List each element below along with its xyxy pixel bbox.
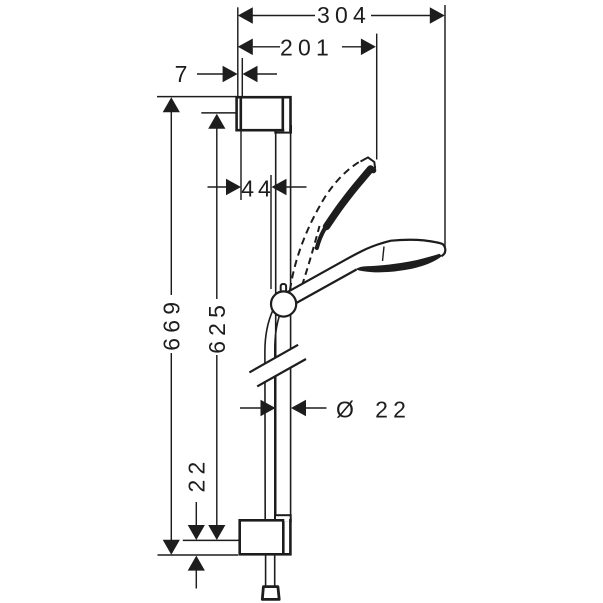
- dimension 22 upper line: [195, 502, 197, 526]
- svg-text:304: 304: [317, 2, 371, 28]
- dimension diameter 22 leader right: [306, 407, 327, 409]
- dimension 304 arrow left: [238, 7, 253, 24]
- tube break mark: [249, 345, 306, 387]
- dimension 44 arrow left pointing right: [226, 179, 241, 196]
- dimension 625 top reference line: [201, 112, 236, 114]
- dimension 669 arrow top: [163, 97, 180, 112]
- dimension 625 bottom reference line: [183, 539, 240, 541]
- dimension 201 arrow right: [361, 39, 376, 56]
- hose end cap: [262, 587, 279, 600]
- svg-text:201: 201: [280, 35, 334, 61]
- dashed hand shower upper position outline left: [290, 161, 361, 290]
- bottom wall bracket: [240, 515, 291, 554]
- svg-text:44: 44: [241, 175, 275, 201]
- dimension 44 leader left: [208, 186, 228, 188]
- top wall bracket: [237, 97, 291, 133]
- dimension 669 top reference line: [157, 96, 237, 98]
- dimension diameter 22 arrow right pointing left: [291, 400, 306, 417]
- hand shower body fill: [287, 240, 445, 307]
- hand shower bottom edge: [290, 270, 357, 307]
- hand shower spray face band: [356, 254, 443, 273]
- dimension 669 bottom reference line: [158, 554, 239, 556]
- dashed hand shower head cap outline: [361, 157, 376, 168]
- dimension 625 line: [216, 128, 218, 299]
- shower hose: [265, 310, 280, 587]
- dimension 304 arrow right: [430, 7, 445, 24]
- slider pin: [281, 284, 286, 294]
- dimension 7 arrow right pointing left: [243, 66, 258, 83]
- dashed hand shower upper position outline right: [302, 226, 320, 286]
- hand shower top edge: [287, 240, 445, 293]
- svg-text:Ø 22: Ø 22: [336, 396, 411, 422]
- dimension 22 arrow up: [188, 556, 205, 571]
- dimension 44 arrow right pointing left: [272, 179, 287, 196]
- dimension 625 arrow top: [208, 114, 225, 129]
- svg-text:669: 669: [159, 297, 185, 351]
- dimension 304 extension line right: [444, 5, 446, 252]
- dashed hand shower spray face band: [317, 169, 374, 248]
- shower rail tube: [276, 131, 291, 517]
- dimension 304 extension line left (wall face): [237, 7, 239, 96]
- svg-text:625: 625: [204, 300, 230, 354]
- svg-text:7: 7: [175, 61, 188, 87]
- dimension 669 arrow bottom: [163, 540, 180, 555]
- dimension 7 leader right: [258, 73, 278, 75]
- bracket step notch erase top: [284, 129, 289, 132]
- dimension 7 extension line right (wall plate inner face): [241, 58, 243, 97]
- dimension 44 extension line left: [240, 130, 242, 200]
- dimension 44 extension line right: [270, 175, 272, 289]
- dimension 22 arrow down: [188, 525, 205, 540]
- dimension 44 leader right: [287, 186, 307, 188]
- dimension 304 line: [252, 15, 315, 17]
- dimension 625 arrow bottom: [208, 525, 225, 540]
- dimension 22 lower line: [195, 571, 197, 589]
- bracket step notch erase bottom: [284, 519, 289, 522]
- dimension 201 line: [253, 46, 280, 48]
- dimension diameter 22 leader left: [240, 407, 261, 409]
- dimension 7 arrow left pointing right: [223, 66, 238, 83]
- dimension diameter 22 arrow left pointing right: [261, 400, 276, 417]
- dimension 201 arrow left: [238, 39, 253, 56]
- dimension 7 leader left: [197, 73, 223, 75]
- hand shower inlet tick: [383, 247, 385, 262]
- svg-text:22: 22: [184, 457, 210, 493]
- dimension 201 extension line right: [376, 34, 378, 160]
- slider knob: [271, 291, 296, 316]
- dimension 669 line: [170, 112, 172, 295]
